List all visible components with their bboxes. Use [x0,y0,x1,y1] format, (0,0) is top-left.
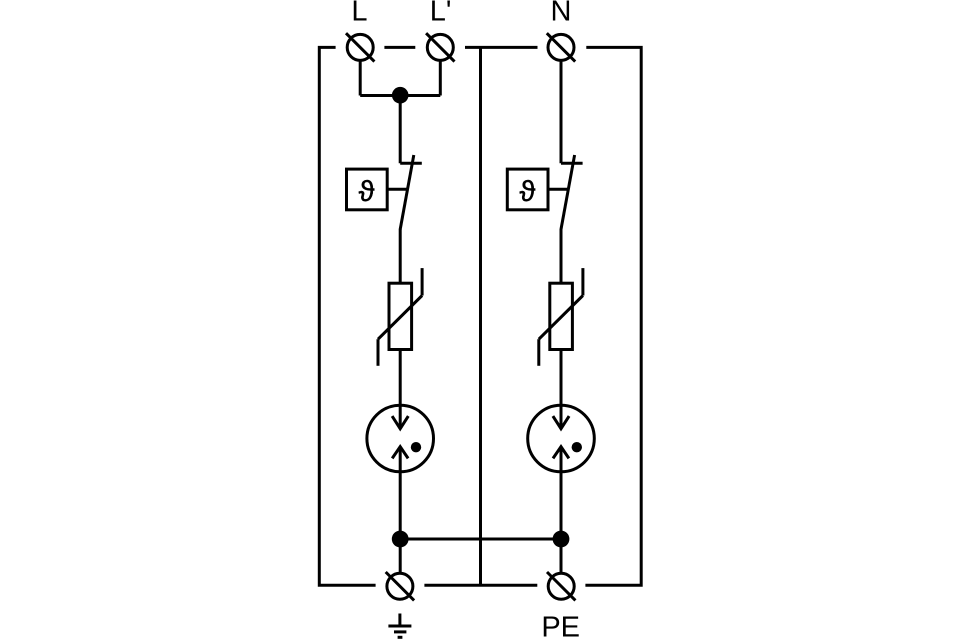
svg-text:L': L' [430,0,452,28]
svg-text:ϑ: ϑ [359,176,375,208]
junction node L/L' [392,87,409,104]
varistor diagonal top hook (L branch) [421,268,424,295]
terminal earth (bottom left) [386,572,414,600]
varistor diagonal bottom hook (N branch) [537,339,540,366]
terminal L [346,33,374,61]
ground symbol stem [398,614,401,627]
junction node N branch to earth bus [553,531,570,548]
thermal sensor box (L branch) [347,169,388,210]
spark gap circle (L branch) [367,405,434,472]
thermal sensor link to blade (N branch) [548,188,568,191]
spark gap circle (N branch) [528,405,595,472]
enclosure divider line [479,47,482,585]
wire from spark gap to earth junction (N branch) [560,472,563,539]
svg-text:L: L [351,0,367,28]
terminal N [547,33,575,61]
spark gap top electrode (L branch) [399,405,402,429]
spark gap bottom electrode (N branch) [560,447,563,472]
earth bus wire between junctions [400,538,561,541]
wire from varistor to spark gap (N branch) [560,350,563,406]
ground symbol bar 1 [388,625,411,628]
wire from switch to varistor (L branch) [399,229,402,283]
enclosure outline top segment L' to N [465,46,538,49]
thermal disconnector switch blade (L branch) [400,155,414,229]
ground symbol bar 3 [398,636,403,639]
varistor body (L branch) [389,283,412,349]
wire from terminal N down [560,60,563,163]
terminal PE (bottom right) [547,572,575,600]
spark gap bottom arrowhead (N branch) [553,447,569,459]
terminal L' [426,33,454,61]
wire junction to PE terminal (right) [560,539,563,573]
svg-text:ϑ: ϑ [519,176,535,208]
wire from terminal L down [359,60,362,95]
spark gap top arrowhead (N branch) [553,416,569,429]
wire from varistor to spark gap (L branch) [399,350,402,406]
svg-text:N: N [551,0,572,28]
varistor diagonal bottom hook (L branch) [377,339,380,366]
varistor diagonal stroke (N branch) [539,296,583,340]
thermal sensor box (N branch) [507,169,548,210]
wire from spark gap to earth junction (L branch) [399,472,402,539]
spark gap trigger dot (L branch) [411,442,421,452]
wire from junction to disconnector [399,96,402,164]
thermal disconnector switch contact tick (L branch) [400,162,422,165]
wire from switch to varistor (N branch) [560,229,563,283]
wire junction to earth terminal (left) [399,539,402,573]
enclosure outline top segment L to L' [384,46,415,49]
wire joining L and L' [360,94,440,97]
spark gap bottom arrowhead (L branch) [392,447,408,459]
svg-text:PE: PE [541,611,580,640]
enclosure outline bottom segment between earth terminals [424,584,537,587]
varistor diagonal stroke (L branch) [378,296,422,340]
ground symbol bar 2 [394,630,406,633]
spark gap bottom electrode (L branch) [399,447,402,472]
varistor diagonal top hook (N branch) [581,268,584,295]
thermal sensor link to blade (L branch) [387,188,407,191]
thermal disconnector switch contact tick (N branch) [561,162,583,165]
enclosure outline left edge [319,47,375,585]
varistor body (N branch) [550,283,573,349]
wire from terminal L' down [439,60,442,95]
spark gap top arrowhead (L branch) [392,416,408,429]
thermal disconnector switch blade (N branch) [561,155,575,229]
spark gap top electrode (N branch) [560,405,563,429]
enclosure outline right edge [585,47,641,585]
spark gap trigger dot (N branch) [572,442,582,452]
junction node L branch to earth bus [392,531,409,548]
